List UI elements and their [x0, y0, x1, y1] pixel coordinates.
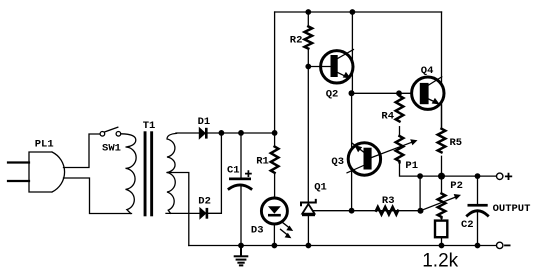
potentiometer P2: [421, 176, 463, 217]
potentiometer P1: [372, 136, 418, 172]
transformer T1 primary winding: [121, 134, 136, 214]
node top rail Q2 collector: [350, 9, 356, 15]
node R4 top: [396, 90, 402, 96]
output terminal -: [497, 242, 510, 248]
wire output row drop to R3 row: [419, 176, 421, 211]
wire D2 cathode riser: [208, 133, 221, 213]
node output row C2: [475, 173, 481, 179]
svg-text:Q1: Q1: [314, 182, 327, 194]
diode D1: [198, 116, 211, 139]
node Q1 bottom on rail: [306, 243, 312, 249]
wire Q2 emitter to Q4 base: [352, 92, 420, 94]
svg-text:PL1: PL1: [35, 138, 54, 150]
svg-text:D1: D1: [198, 116, 211, 128]
svg-text:R2: R2: [290, 34, 303, 46]
zener Q1: [301, 182, 327, 246]
resistor 1.2k box: [422, 217, 458, 272]
svg-text:Q2: Q2: [326, 88, 339, 100]
wire R2 bottom to zener Q1: [307, 49, 309, 203]
LED D3: [251, 197, 293, 246]
node C1 top: [238, 130, 244, 136]
diode D2: [198, 196, 211, 219]
wire R4 to P1: [399, 127, 401, 136]
node D3 bottom: [272, 243, 278, 249]
switch SW1: [100, 127, 121, 154]
resistor R5: [438, 105, 462, 176]
resistor R1: [256, 133, 278, 197]
node R3 left junction: [349, 208, 355, 214]
svg-text:R1: R1: [256, 156, 269, 168]
svg-text:R5: R5: [449, 137, 462, 149]
wire Q2 emitter / Q3 line vertical: [351, 93, 353, 210]
plug PL1: [8, 138, 65, 192]
svg-text:P1: P1: [405, 160, 418, 172]
svg-text:P2: P2: [450, 180, 463, 192]
output terminal +: [497, 173, 512, 179]
svg-text:D2: D2: [198, 196, 211, 208]
svg-text:SW1: SW1: [102, 143, 121, 155]
svg-text:C1: C1: [227, 165, 240, 177]
node Q2 base: [305, 64, 311, 70]
svg-text:OUTPUT: OUTPUT: [493, 203, 531, 215]
svg-text:R4: R4: [381, 110, 394, 122]
node C2 bottom: [475, 243, 481, 249]
transistor Q4: [412, 12, 444, 129]
transformer T1 core: [144, 131, 153, 216]
top rail: [275, 11, 442, 13]
transistor Q2: [308, 12, 353, 100]
svg-text:R3: R3: [382, 195, 395, 207]
wire secondary top to D1: [176, 132, 199, 134]
node Q2 emitter junction: [349, 90, 355, 96]
svg-text:T1: T1: [143, 120, 156, 132]
transformer T1 secondary winding: [167, 133, 177, 213]
wire secondary bottom to D2: [166, 212, 200, 214]
node output row R5/P2: [438, 173, 445, 180]
svg-text:Q3: Q3: [331, 156, 344, 168]
capacitor C1: [227, 133, 251, 246]
node D2 feed junction: [219, 130, 225, 136]
node top rail R2: [305, 9, 311, 15]
svg-text:D3: D3: [251, 225, 264, 237]
node 1.2k bottom: [439, 243, 445, 249]
capacitor C2: [461, 176, 488, 245]
node R1 top: [272, 130, 278, 136]
node output row R3 drop: [417, 173, 423, 179]
ground rail: [189, 245, 497, 247]
wire row A to C1 and R1: [241, 132, 275, 134]
resistor R4: [381, 93, 403, 122]
node C1 bottom / ground: [238, 243, 244, 249]
ground: [235, 246, 248, 266]
resistor R2: [290, 12, 312, 49]
wire top loop left vertical: [274, 12, 276, 133]
wire P1 bottom to output row: [400, 162, 497, 176]
svg-text:C2: C2: [461, 219, 474, 231]
node P2 wiper junction: [418, 208, 424, 214]
wire plug lower output to primary bottom: [64, 178, 132, 214]
svg-text:Q4: Q4: [421, 65, 434, 77]
wire R3 row: [313, 210, 421, 212]
transistor Q3: [331, 143, 380, 175]
wire plug upper output to switch: [64, 134, 100, 168]
wire center tap down to ground rail: [167, 173, 189, 246]
svg-text:1.2k: 1.2k: [422, 251, 458, 272]
wire D1 cathode to row A: [208, 132, 241, 134]
resistor R3: [376, 195, 398, 215]
